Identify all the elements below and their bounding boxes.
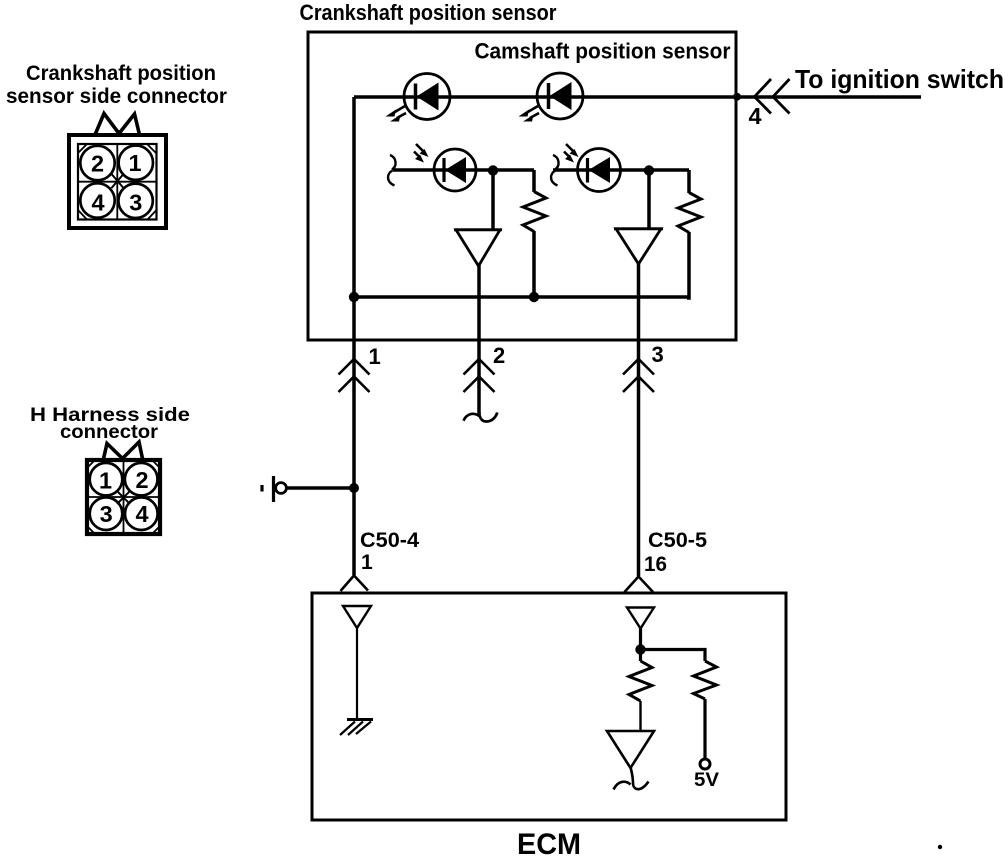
svg-text:5V: 5V	[694, 770, 719, 791]
chassis ground	[340, 720, 373, 736]
wire: junction down to amplifier U1	[491, 170, 495, 230]
svg-text:connector: connector	[60, 421, 158, 443]
node: bus R1 junction	[529, 292, 539, 302]
svg-text:To ignition switch: To ignition switch	[795, 64, 1004, 94]
svg-text:1: 1	[128, 150, 141, 176]
photodiode D3 (crankshaft detector)	[434, 149, 476, 191]
amplifier U1	[454, 230, 502, 266]
wire: junction to pull-up branch	[641, 650, 706, 662]
ECM entry chevron wire 1	[341, 576, 369, 592]
connector CN2 body	[87, 460, 160, 534]
svg-text:1: 1	[361, 551, 373, 574]
connector CN1 pin numbers	[91, 150, 142, 215]
resistor R2	[678, 193, 701, 233]
connector CN1 latch	[95, 114, 140, 137]
wire: T3L to chassis ground	[356, 628, 358, 719]
period mark	[938, 845, 942, 849]
wire: R1 top connection	[532, 170, 536, 192]
wire: U1 output (sensor pin 2)	[477, 265, 481, 414]
wire: R2 bottom to bus	[687, 232, 689, 298]
connector chevrons on wire 3	[623, 359, 654, 392]
connector CN2 center cross mark	[117, 491, 130, 504]
wire: U2 output (sensor pin 3)	[637, 263, 641, 576]
ECM box	[312, 593, 786, 820]
photodiode D3 light arrows	[414, 144, 429, 163]
buffer T3L (ECM input, pin 1)	[343, 606, 371, 628]
svg-text:2: 2	[493, 343, 505, 368]
svg-text:Crankshaft position: Crankshaft position	[26, 62, 216, 85]
svg-text:4: 4	[91, 189, 104, 215]
node: wire at sensor box edge	[733, 93, 741, 101]
connector CN2 pin numbers	[99, 467, 148, 527]
shield ground symbol	[262, 476, 286, 502]
wire: junction down to R3	[639, 650, 642, 662]
wire: T3R to junction	[639, 628, 642, 649]
photodiode D4 (camshaft detector)	[578, 149, 621, 192]
comparator T4	[607, 731, 654, 768]
node: D4 output junction	[644, 165, 654, 175]
hook: T4 output open end	[614, 767, 649, 790]
svg-text:C50-5: C50-5	[648, 528, 707, 552]
hook: wire 2 open end	[464, 412, 498, 421]
connector CN1 center cross mark	[112, 174, 124, 188]
svg-text:16: 16	[644, 552, 667, 576]
photodiode D4 light arrows	[564, 144, 579, 163]
svg-text:2: 2	[135, 467, 148, 493]
wire: sensor pin 1 down to ECM	[352, 297, 356, 575]
connector CN1 body	[69, 135, 166, 228]
svg-text:1: 1	[99, 468, 112, 494]
resistor R3	[629, 661, 652, 701]
svg-text:4: 4	[749, 103, 762, 129]
wire: R2 top connection	[687, 170, 691, 193]
squiggle: D3 wire break	[388, 155, 396, 186]
node: ECM divider junction	[635, 644, 645, 654]
terminal: 5V supply	[700, 759, 710, 769]
svg-text:3: 3	[100, 501, 113, 527]
wire: shield to pin1 wire	[286, 486, 354, 490]
svg-text:ECM: ECM	[517, 828, 581, 858]
svg-text:C50-4: C50-4	[360, 528, 419, 552]
wire: left vertical from rail to ground bus	[352, 97, 356, 297]
wire: R1 bottom to bus	[532, 231, 536, 297]
connector CN2 corner chamfers	[87, 460, 160, 534]
node: D3 output junction	[488, 165, 498, 175]
resistor R4 (pull-up)	[694, 661, 717, 699]
squiggle: D4 wire break	[551, 155, 559, 186]
LED D2 (camshaft emitter)	[537, 73, 583, 119]
buffer T3R (ECM input, pin 16)	[627, 608, 654, 629]
crankshaft position sensor box	[308, 32, 736, 340]
connector CN1 corner chamfers	[78, 144, 157, 220]
wire: R4 to 5V terminal	[703, 699, 706, 759]
wire: R3 to comparator T4	[639, 701, 641, 731]
wire: photodiode D4 input row	[553, 168, 689, 172]
svg-text:Crankshaft position sensor: Crankshaft position sensor	[300, 0, 557, 25]
connector chevrons on wire 2	[464, 359, 495, 392]
wire: supply rail to ignition switch	[354, 95, 921, 99]
wire: internal ground bus	[354, 295, 689, 299]
svg-text:2: 2	[91, 151, 104, 177]
connector chevrons on wire 1	[339, 359, 370, 392]
resistor R1	[523, 192, 546, 232]
node: bus left junction	[349, 292, 359, 302]
wire: junction down to amplifier U2	[647, 170, 651, 229]
svg-text:1: 1	[369, 344, 381, 369]
svg-text:sensor side connector: sensor side connector	[6, 85, 227, 108]
LED D1 (crankshaft emitter)	[404, 74, 450, 120]
connector CN2 latch	[103, 442, 143, 461]
node: shield junction	[349, 483, 359, 493]
svg-text:4: 4	[135, 501, 148, 527]
connector CN2 cavities	[90, 463, 158, 530]
svg-text:Camshaft position sensor: Camshaft position sensor	[475, 39, 731, 64]
connector 4 chevrons (in-line connector to ignition switch)	[755, 79, 790, 114]
connector CN1 cavities	[80, 146, 153, 219]
amplifier U2	[614, 229, 663, 264]
svg-text:3: 3	[129, 189, 142, 215]
LED D2 light arrows	[519, 106, 540, 122]
wire: photodiode D3 input row	[393, 168, 534, 172]
svg-text:3: 3	[652, 342, 664, 367]
ECM entry chevron wire 3	[625, 577, 654, 593]
LED D1 light arrows	[386, 106, 407, 122]
